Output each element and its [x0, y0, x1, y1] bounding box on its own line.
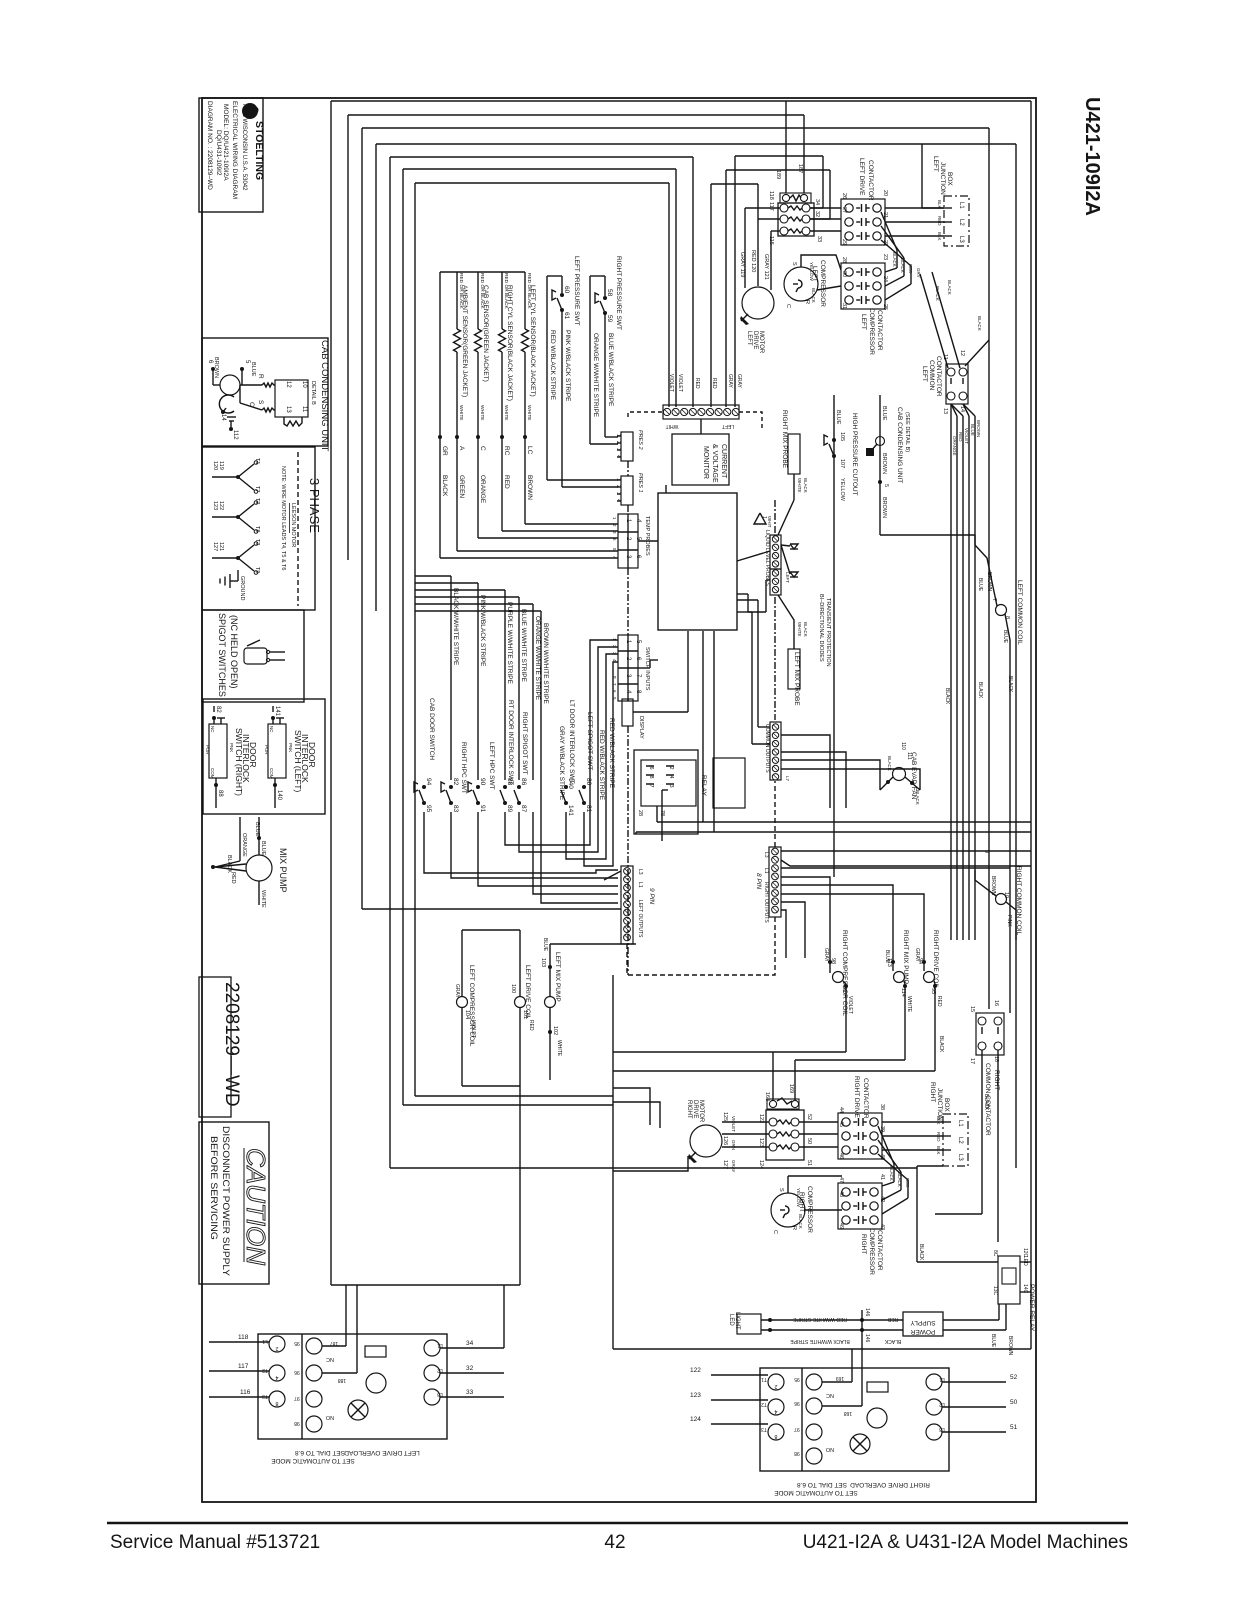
svg-text:GROUND: GROUND [239, 576, 245, 600]
jumper terminals 189 187 [780, 193, 811, 203]
svg-text:BROWN: BROWN [976, 420, 981, 437]
svg-text:WHIT: WHIT [767, 516, 772, 528]
right drive contactor [838, 1113, 882, 1159]
svg-text:C: C [785, 304, 791, 308]
svg-text:146: 146 [864, 1334, 870, 1343]
svg-text:94: 94 [917, 958, 923, 964]
svg-text:96: 96 [294, 1369, 300, 1375]
relay box [634, 750, 698, 834]
left pressure switch [547, 276, 618, 487]
svg-text:13: 13 [285, 406, 291, 413]
svg-text:U421-109I2A: U421-109I2A [1081, 97, 1103, 216]
drawing number box [199, 977, 231, 1117]
svg-text:42: 42 [604, 1532, 625, 1553]
svg-text:3: 3 [615, 448, 621, 451]
svg-text:DISCONNECT POWER SUPPLY: DISCONNECT POWER SUPPLY [220, 1126, 231, 1277]
svg-text:BLACK: BLACK [977, 682, 983, 699]
svg-text:BLACK: BLACK [983, 1094, 989, 1111]
compressor wires [801, 255, 841, 270]
svg-text:83: 83 [452, 805, 459, 813]
svg-text:R: R [791, 1226, 797, 1230]
svg-text:RED: RED [230, 872, 236, 884]
svg-text:BLUE: BLUE [970, 424, 975, 436]
svg-text:32: 32 [466, 1365, 474, 1372]
svg-text:98: 98 [294, 1420, 300, 1426]
svg-text:CURRENT: CURRENT [720, 444, 727, 479]
svg-text:NOTE: WIRE MOTOR LEADS T4, T5: NOTE: WIRE MOTOR LEADS T4, T5 & T6 [280, 466, 286, 570]
left drive overload box [209, 1285, 504, 1439]
svg-text:ORANGE: ORANGE [241, 833, 247, 857]
svg-text:1: 1 [761, 516, 767, 519]
main terminal strip [663, 405, 739, 419]
long wire y832 [636, 831, 1031, 833]
svg-text:PUR: PUR [264, 745, 269, 755]
diodes transient protection [790, 544, 798, 549]
dashed harness lines [628, 412, 663, 417]
svg-text:BLUE: BLUE [835, 410, 841, 425]
svg-text:59: 59 [606, 315, 613, 323]
svg-text:BLACK: BLACK [811, 288, 816, 303]
svg-text:LED: LED [1022, 1256, 1028, 1266]
svg-text:VIOLET: VIOLET [847, 996, 853, 1014]
svg-text:L3: L3 [939, 1426, 945, 1432]
right contactor to junction box [882, 1121, 943, 1123]
svg-text:107: 107 [839, 459, 845, 468]
svg-text:82: 82 [215, 706, 221, 713]
svg-text:R: R [804, 300, 810, 304]
svg-text:96: 96 [794, 1400, 800, 1406]
sensor lead A [456, 272, 458, 329]
svg-text:RIGHT: RIGHT [993, 1070, 1000, 1090]
svg-text:DIAGRAM NO. : 2208129–WD: DIAGRAM NO. : 2208129–WD [206, 101, 213, 190]
left mix pump coil [545, 997, 556, 1008]
svg-text:RED: RED [936, 1132, 941, 1142]
sensor group [438, 272, 525, 558]
svg-text:GRAY 119: GRAY 119 [739, 252, 745, 277]
right compressor coil [828, 960, 848, 1052]
svg-text:50: 50 [1010, 1399, 1018, 1406]
svg-text:NC: NC [210, 726, 215, 733]
svg-text:141: 141 [567, 805, 574, 816]
svg-text:BLACK: BLACK [944, 688, 950, 705]
contactor to junction box wires [885, 207, 944, 209]
right overload relay block [766, 1110, 804, 1160]
svg-text:BLACK: BLACK [897, 1172, 902, 1187]
svg-text:BLUE W/WHITE STRIPE: BLUE W/WHITE STRIPE [520, 609, 527, 683]
left compressor contactor [841, 263, 885, 309]
bundle wire [951, 404, 957, 416]
bus wire 4 [376, 143, 1016, 145]
diagonal feed [604, 871, 621, 880]
svg-text:NC: NC [326, 1356, 334, 1362]
svg-text:RIGHT: RIGHT [686, 1100, 692, 1119]
svg-text:5: 5 [883, 484, 889, 487]
bundle wire [963, 404, 969, 416]
left common contactor feeds [920, 272, 989, 368]
svg-text:RT DOOR INTERLOCK SWT: RT DOOR INTERLOCK SWT [507, 700, 514, 785]
svg-text:BLK: BLK [937, 200, 942, 209]
svg-text:8C: 8C [992, 1250, 998, 1257]
svg-text:15: 15 [969, 1006, 975, 1012]
svg-text:RIGHT: RIGHT [860, 1234, 867, 1254]
svg-text:BLACK: BLACK [977, 316, 982, 331]
svg-text:14: 14 [220, 414, 226, 421]
svg-text:RIGHT PRESSURE SWT: RIGHT PRESSURE SWT [615, 256, 622, 330]
svg-text:Service Manual #513721: Service Manual #513721 [110, 1532, 320, 1553]
footer rule [107, 1522, 1128, 1524]
svg-text:LEFT: LEFT [722, 423, 734, 429]
svg-text:GRN: GRN [731, 1140, 736, 1150]
svg-text:RIGHT OUTPUTS: RIGHT OUTPUTS [763, 882, 769, 923]
controller to common outputs [737, 599, 758, 601]
3 phase dashed divider [297, 452, 299, 606]
svg-text:LEFT OUTPUTS: LEFT OUTPUTS [637, 900, 643, 938]
svg-text:RED: RED [503, 475, 510, 489]
svg-text:2: 2 [615, 441, 621, 444]
svg-text:RED: RED [528, 1020, 534, 1031]
svg-text:T3: T3 [262, 1393, 268, 1399]
svg-text:117: 117 [238, 1363, 249, 1370]
svg-text:T7: T7 [254, 486, 260, 492]
svg-text:SUPPLY: SUPPLY [910, 1319, 936, 1326]
svg-text:HIGH PRESSURE CUTOUT: HIGH PRESSURE CUTOUT [851, 413, 858, 496]
svg-text:LEFT DRIVE OVERLOAD: LEFT DRIVE OVERLOAD [344, 1449, 420, 1456]
right compressor [771, 1193, 805, 1227]
svg-text:3 PHASE: 3 PHASE [307, 478, 322, 533]
stripe wire [415, 582, 478, 584]
R coil [262, 383, 275, 387]
svg-text:BLUE W/BLACK STRIPE: BLUE W/BLACK STRIPE [607, 333, 614, 407]
svg-text:BROWN: BROWN [1007, 1336, 1013, 1356]
right leads [440, 1347, 504, 1349]
svg-text:A: A [458, 446, 465, 451]
svg-text:YELLOW: YELLOW [839, 478, 845, 502]
svg-text:T2: T2 [262, 1367, 268, 1373]
dial circle [366, 1373, 386, 1393]
svg-text:BLACK: BLACK [798, 1214, 803, 1229]
sensor lead GR [439, 272, 441, 437]
left drive overload relay block [778, 193, 814, 236]
controller main box [658, 493, 737, 630]
svg-text:CONTACTOR: CONTACTOR [862, 1078, 869, 1119]
long wire y822 [657, 821, 1031, 823]
svg-text:97: 97 [294, 1395, 300, 1401]
svg-text:SET DIAL TO 6.8: SET DIAL TO 6.8 [797, 1481, 847, 1488]
svg-text:86: 86 [520, 778, 527, 786]
svg-text:L3: L3 [437, 1391, 443, 1397]
dash-dot harness line [627, 461, 629, 476]
svg-text:POWER RELAY: POWER RELAY [1028, 1284, 1035, 1332]
svg-text:123: 123 [690, 1392, 701, 1399]
harness dash-dot through probes [774, 500, 776, 533]
wires to bottom-left overload from right [503, 1285, 505, 1348]
svg-text:WHITE: WHITE [556, 1040, 562, 1057]
svg-text:2: 2 [774, 1383, 777, 1389]
svg-text:113: 113 [886, 958, 892, 967]
svg-text:WHITE: WHITE [479, 405, 485, 420]
svg-text:118: 118 [238, 1334, 249, 1341]
svg-text:127: 127 [212, 542, 218, 551]
switch LEFT SPIGOT SWT [582, 785, 586, 789]
right section boundary [613, 975, 1031, 1349]
switch bank [414, 778, 432, 813]
svg-text:146: 146 [864, 1308, 870, 1317]
fork junction [236, 556, 240, 560]
svg-text:LC: LC [526, 446, 533, 455]
aux box beside relay [713, 758, 745, 808]
svg-text:51: 51 [806, 1160, 812, 1166]
svg-text:122: 122 [690, 1367, 701, 1374]
left compressor [784, 267, 818, 301]
svg-text:RIGHT: RIGHT [798, 1192, 805, 1212]
svg-text:BLUE: BLUE [250, 362, 256, 377]
3 PHASE box [202, 447, 315, 610]
right mix pump coil [894, 972, 905, 983]
svg-text:MODEL: DQ/U421-109I2A: MODEL: DQ/U421-109I2A [222, 104, 229, 181]
svg-text:BLUE: BLUE [1002, 630, 1008, 644]
svg-text:RED: RED [711, 378, 717, 389]
svg-text:BROWN: BROWN [990, 876, 996, 896]
svg-text:MOTOR: MOTOR [698, 1100, 704, 1123]
svg-text:L1: L1 [939, 1376, 945, 1382]
black wire to power relay [916, 1166, 918, 1262]
motor to overload wires [722, 1121, 769, 1123]
9 pin connector [604, 866, 633, 944]
svg-text:KIEL WISCONSIN U.S.A. 53042: KIEL WISCONSIN U.S.A. 53042 [241, 104, 247, 191]
svg-text:4: 4 [615, 455, 621, 458]
fork junction [236, 515, 240, 519]
mix pump leads [258, 817, 260, 855]
svg-text:3: 3 [615, 492, 621, 495]
svg-text:25: 25 [882, 304, 888, 310]
svg-text:SWITCH (LEFT): SWITCH (LEFT) [293, 730, 303, 792]
svg-text:12: 12 [959, 350, 965, 356]
svg-text:12: 12 [285, 381, 291, 388]
coil tails into overload jumpers [613, 1051, 846, 1053]
junction box bottom [943, 1114, 968, 1166]
svg-text:DQ/U431-109I2: DQ/U431-109I2 [215, 130, 222, 176]
svg-text:GRAY 121: GRAY 121 [763, 254, 769, 280]
switch LT DOOR INTERLOCK SWT [564, 785, 568, 789]
svg-text:RC: RC [503, 446, 510, 456]
common outputs wires right [781, 735, 830, 808]
left leads [209, 1341, 269, 1343]
svg-text:SET TO AUTOMATIC MODE: SET TO AUTOMATIC MODE [271, 1457, 355, 1464]
svg-text:6: 6 [648, 767, 654, 770]
svg-text:52: 52 [806, 1114, 812, 1120]
svg-text:BOX: BOX [943, 1098, 950, 1112]
svg-text:47: 47 [838, 1177, 844, 1183]
svg-text:95: 95 [425, 805, 432, 813]
door interlock switches box [203, 699, 325, 814]
svg-text:168: 168 [764, 1092, 770, 1101]
svg-text:LIGHT: LIGHT [734, 1312, 740, 1330]
svg-text:COMMON: COMMON [928, 360, 935, 391]
svg-text:RED: RED [694, 378, 700, 389]
svg-text:GRAY: GRAY [454, 984, 460, 998]
svg-text:DISPLAY: DISPLAY [638, 716, 644, 739]
svg-text:VIOLET: VIOLET [677, 374, 683, 392]
svg-text:C: C [772, 1230, 778, 1234]
svg-text:187: 187 [797, 164, 803, 173]
svg-text:14C: 14C [1022, 1284, 1028, 1294]
svg-text:90: 90 [479, 778, 486, 786]
power relay [998, 1256, 1031, 1304]
svg-text:LIQUID LEVEL PROBES: LIQUID LEVEL PROBES [764, 530, 770, 586]
power supply box [903, 1312, 943, 1336]
svg-text:GRAY: GRAY [731, 1160, 736, 1172]
switch CAB DOOR SWITCH [422, 785, 426, 789]
svg-text:COMMON OUTPUTS: COMMON OUTPUTS [764, 724, 770, 773]
svg-text:119: 119 [218, 461, 224, 470]
svg-text:BLACK: BLACK [915, 790, 920, 805]
dial rect [365, 1346, 386, 1357]
svg-text:RED 120: RED 120 [750, 250, 756, 272]
left coil loop box [461, 930, 463, 997]
svg-text:VIOLET: VIOLET [964, 428, 969, 444]
svg-text:10: 10 [1003, 892, 1009, 898]
svg-text:BLACK: BLACK [938, 1036, 944, 1053]
svg-text:L3: L3 [957, 1154, 963, 1161]
svg-text:BLACK: BLACK [803, 478, 808, 493]
svg-text:31: 31 [841, 303, 847, 309]
svg-text:T8: T8 [254, 526, 260, 532]
svg-text:8: 8 [648, 776, 654, 779]
svg-text:BLUE: BLUE [542, 938, 548, 952]
8 pin connector [769, 500, 781, 917]
svg-text:TEMP PROBES: TEMP PROBES [644, 516, 650, 556]
svg-text:28: 28 [841, 257, 847, 263]
svg-text:L1: L1 [958, 202, 964, 209]
svg-text:L7: L7 [785, 776, 790, 782]
svg-text:PINK W/BLACK STRIPE: PINK W/BLACK STRIPE [479, 595, 486, 667]
svg-text:88: 88 [217, 790, 223, 797]
bundle wire [950, 404, 952, 416]
svg-text:80: 80 [585, 778, 592, 786]
svg-text:43: 43 [879, 1224, 885, 1230]
switch leads [271, 716, 275, 720]
svg-text:LED: LED [728, 1314, 734, 1326]
ground symbol [229, 574, 231, 588]
svg-text:GRAY: GRAY [736, 374, 742, 388]
bus wire 6 [403, 168, 676, 170]
svg-text:NC: NC [826, 1392, 834, 1398]
svg-text:103: 103 [540, 958, 546, 967]
right drive motor [690, 1125, 722, 1157]
svg-text:T2: T2 [761, 1401, 767, 1407]
svg-text:120: 120 [212, 461, 218, 470]
svg-text:RIGHT: RIGHT [929, 1082, 936, 1102]
svg-text:L2: L2 [939, 1401, 945, 1407]
svg-text:4: 4 [275, 1374, 278, 1380]
right overload bottom leads left [711, 1374, 768, 1376]
svg-text:WHITE: WHITE [526, 405, 532, 420]
bottom bus horizontals [415, 1095, 613, 1097]
svg-text:L1: L1 [763, 868, 769, 874]
svg-text:BLACK: BLACK [935, 286, 940, 301]
svg-text:28: 28 [637, 810, 643, 816]
svg-text:38: 38 [879, 1104, 885, 1110]
cab evap fan [880, 768, 920, 791]
svg-text:L3: L3 [637, 869, 643, 875]
liquid level probe terminals upper [770, 535, 781, 569]
svg-text:BI–DIRECTIONAL DIODES: BI–DIRECTIONAL DIODES [818, 594, 824, 662]
svg-text:121: 121 [218, 542, 224, 551]
stepped feed outline [613, 1088, 650, 1125]
svg-text:30: 30 [841, 271, 847, 277]
svg-text:98: 98 [830, 958, 836, 964]
svg-text:58: 58 [606, 289, 613, 297]
overload right leads [810, 207, 841, 209]
svg-text:PINK: PINK [1006, 915, 1012, 927]
svg-text:23: 23 [882, 254, 888, 260]
svg-text:CONTACTOR: CONTACTOR [935, 356, 942, 397]
svg-text:ORANGE W/WHITE STRIPE: ORANGE W/WHITE STRIPE [592, 333, 599, 418]
svg-text:1: 1 [615, 478, 621, 481]
svg-text:BLACK W/WHITE STRIPE: BLACK W/WHITE STRIPE [452, 588, 459, 666]
svg-text:2208129—WD: 2208129—WD [221, 982, 242, 1107]
bus wire 5 [390, 156, 693, 158]
PRES 2 connector [621, 432, 633, 461]
warning triangle [754, 513, 766, 524]
svg-text:WHITE: WHITE [503, 405, 509, 420]
right contactor crossover diagonals [878, 1126, 894, 1164]
svg-text:LEESON MOTOR: LEESON MOTOR [290, 503, 296, 547]
svg-text:BLACK: BLACK [918, 1244, 924, 1261]
power supply wires right [943, 1319, 999, 1321]
svg-text:BROWN W/WHITE STRIPE: BROWN W/WHITE STRIPE [542, 623, 549, 705]
svg-text:60: 60 [563, 286, 570, 294]
svg-text:RIGHT DRIVE COIL: RIGHT DRIVE COIL [932, 930, 939, 989]
svg-text:S: S [778, 1188, 784, 1192]
svg-text:4: 4 [774, 1408, 777, 1414]
svg-text:PUR: PUR [205, 745, 210, 755]
svg-text:COMPRESSOR: COMPRESSOR [819, 260, 826, 307]
bundle wire [963, 404, 975, 416]
svg-text:T1: T1 [761, 1376, 767, 1382]
svg-text:187: 187 [330, 1340, 339, 1346]
svg-text:U421-I2A & U431-I2A Model Mach: U421-I2A & U431-I2A Model Machines [803, 1532, 1128, 1553]
motor ground hatch [740, 316, 749, 325]
svg-text:16: 16 [993, 1000, 999, 1006]
svg-text:7: 7 [648, 785, 654, 788]
svg-text:DETAIL B: DETAIL B [310, 381, 316, 405]
svg-text:140: 140 [276, 790, 282, 801]
svg-text:1: 1 [615, 434, 621, 437]
switch RT DOOR INTERLOCK SWT [503, 785, 507, 789]
svg-text:82: 82 [452, 778, 459, 786]
svg-text:T2: T2 [254, 498, 260, 504]
svg-text:VIOLET: VIOLET [470, 1020, 476, 1038]
wires 187 188 [345, 1317, 347, 1346]
svg-text:188: 188 [338, 1377, 347, 1383]
svg-text:(NC HELD OPEN): (NC HELD OPEN) [229, 615, 239, 689]
svg-text:33: 33 [466, 1389, 474, 1396]
svg-text:CAUTION: CAUTION [241, 1148, 271, 1265]
bundle wire [951, 404, 963, 416]
svg-text:105: 105 [839, 432, 845, 441]
wires 169 168 [851, 1349, 853, 1382]
svg-text:BLACK W/WHITE STRIPE: BLACK W/WHITE STRIPE [790, 1338, 850, 1344]
svg-text:L2: L2 [437, 1367, 443, 1373]
svg-text:CAB CONDENSING UNIT: CAB CONDENSING UNIT [319, 340, 330, 452]
svg-text:COMPRESSOR: COMPRESSOR [868, 1228, 875, 1275]
svg-text:PINK W/BLACK STRIPE: PINK W/BLACK STRIPE [564, 330, 571, 402]
svg-text:89: 89 [506, 805, 513, 813]
svg-text:VIOLET: VIOLET [668, 374, 674, 392]
svg-text:BLK: BLK [936, 1116, 941, 1125]
svg-text:BLACK: BLACK [803, 622, 808, 637]
